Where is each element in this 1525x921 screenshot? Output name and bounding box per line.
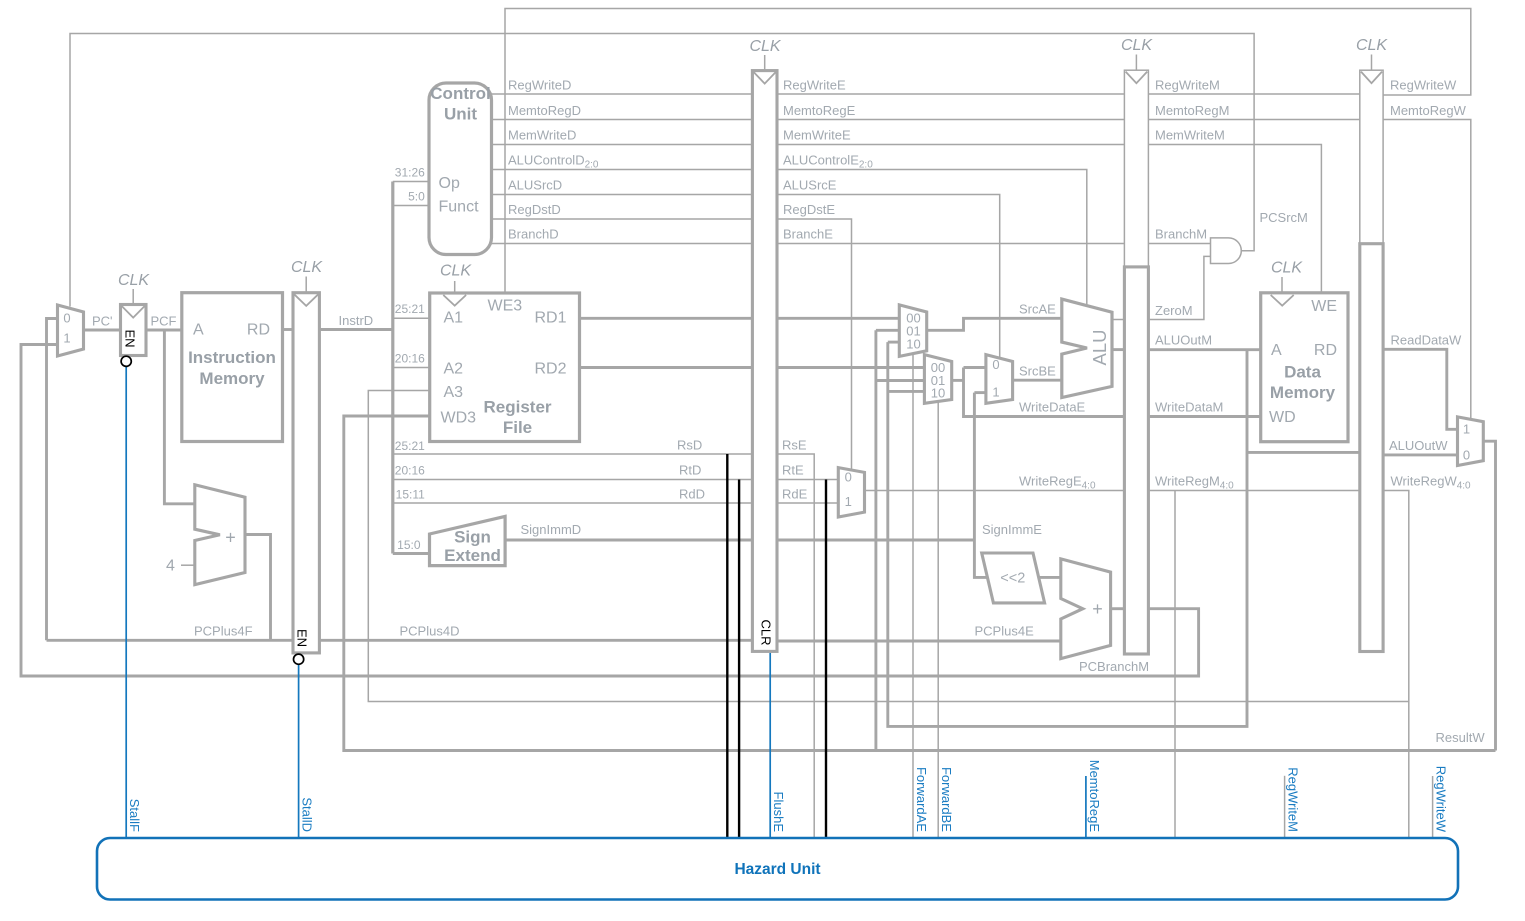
- svg-text:CLK: CLK: [749, 38, 781, 55]
- svg-text:WD3: WD3: [441, 410, 477, 427]
- svg-text:RdD: RdD: [679, 487, 705, 502]
- wire MemtoRegW to result mux select: [1383, 120, 1471, 420]
- svg-text:10: 10: [931, 386, 945, 401]
- register file box: [430, 293, 580, 442]
- wire SrcBE from mux to ALU: [1013, 379, 1062, 382]
- mux SrcB (0/1): [986, 355, 1013, 404]
- wire ALUControlD: [492, 169, 753, 171]
- svg-text:CLK: CLK: [291, 259, 323, 276]
- svg-text:Memory: Memory: [1270, 383, 1336, 402]
- wire SignImmD: [505, 539, 752, 542]
- svg-text:EN: EN: [122, 329, 137, 347]
- svg-text:Memory: Memory: [199, 369, 265, 388]
- svg-text:RD1: RD1: [534, 310, 566, 327]
- wire MemtoRegM: [1148, 119, 1359, 121]
- wire ResultW to forward mux A input 01: [876, 329, 899, 332]
- wire MemtoRegE: [777, 119, 1124, 121]
- clock tick PC: [132, 289, 134, 304]
- clock tick data memory: [1281, 277, 1283, 292]
- svg-text:ForwardBE: ForwardBE: [939, 767, 954, 832]
- svg-text:ALUOutW: ALUOutW: [1389, 438, 1448, 453]
- wire Funct stub: [393, 205, 429, 207]
- wire RegWriteM: [1148, 93, 1359, 95]
- wire RtD: [393, 479, 753, 481]
- instruction memory box: [182, 293, 283, 442]
- register E/M thick datapath part: [1124, 267, 1148, 654]
- wire PCF to instruction memory: [146, 329, 182, 332]
- wire PCPlus4E: [777, 640, 1061, 643]
- svg-text:RegDstE: RegDstE: [783, 202, 835, 217]
- clock triangle M/W: [1361, 72, 1382, 84]
- mux forward A (00/01/10): [899, 305, 926, 357]
- svg-text:5:0: 5:0: [408, 190, 425, 204]
- wire PCF branch down to +4 adder: [164, 330, 195, 504]
- wire BranchM to AND gate: [1148, 243, 1211, 245]
- svg-text:ForwardAE: ForwardAE: [914, 767, 929, 832]
- svg-text:RD: RD: [1314, 342, 1337, 359]
- svg-text:A2: A2: [444, 361, 464, 378]
- svg-text:RD2: RD2: [534, 361, 566, 378]
- adder PC branch: [1061, 559, 1111, 659]
- svg-text:RegWriteM: RegWriteM: [1286, 767, 1301, 832]
- wire WriteRegW down: [1383, 491, 1409, 839]
- svg-text:CLK: CLK: [440, 263, 472, 280]
- wire RtE: [777, 479, 838, 481]
- svg-text:25:21: 25:21: [395, 302, 425, 316]
- wire PCPlus4D: [319, 639, 752, 642]
- svg-text:1: 1: [63, 331, 70, 346]
- wire ALUSrcD: [492, 194, 753, 196]
- svg-text:0: 0: [845, 470, 852, 485]
- svg-text:ALUSrcD: ALUSrcD: [508, 178, 562, 193]
- wire StallD (blue): [298, 664, 300, 838]
- register PC (EN): [121, 305, 147, 356]
- svg-text:Instruction: Instruction: [188, 348, 276, 367]
- svg-text:MemWriteM: MemWriteM: [1155, 128, 1225, 143]
- wire MemWriteD: [492, 144, 753, 146]
- svg-text:WriteDataE: WriteDataE: [1019, 400, 1086, 415]
- wire branch adder out: [1111, 607, 1125, 610]
- svg-text:15:11: 15:11: [396, 488, 425, 502]
- wire BranchD: [492, 243, 753, 245]
- svg-text:Funct: Funct: [439, 199, 480, 216]
- wire RegDstE to WriteReg mux select: [777, 219, 852, 470]
- svg-text:CLK: CLK: [1356, 37, 1388, 54]
- wire PC' from mux to PC register: [84, 329, 121, 332]
- clock triangle register file: [443, 295, 466, 306]
- wire MemtoRegE stub to hazard unit (blue): [1085, 776, 1087, 838]
- svg-text:RegWriteW: RegWriteW: [1390, 78, 1457, 93]
- svg-text:1: 1: [845, 494, 852, 509]
- wire RtE to hazard unit (black): [825, 480, 827, 839]
- wire ALUOut stub from ALU to E/M register: [1112, 348, 1124, 351]
- svg-text:PCF: PCF: [151, 314, 177, 329]
- svg-text:RdE: RdE: [782, 487, 808, 502]
- wire MemWriteM to data memory WE: [1148, 145, 1321, 294]
- wire PCSrcM from AND gate to PC mux select: [70, 34, 1254, 307]
- svg-text:25:21: 25:21: [395, 439, 425, 453]
- svg-text:CLK: CLK: [118, 272, 150, 289]
- wire WriteRegE: [865, 490, 1125, 492]
- svg-text:Sign: Sign: [454, 528, 491, 547]
- clock triangle E/M: [1126, 72, 1148, 84]
- wire ForwardAE select: [912, 354, 914, 839]
- wire PCBranchM long feedback to PC mux input 1: [21, 345, 1199, 677]
- wire ALUOutM forwarding path: [888, 342, 1247, 726]
- wire RD1 to forward mux A input 00: [777, 317, 899, 320]
- wire ALUSrcE to SrcB mux select: [777, 195, 1000, 359]
- wire ResultW long feedback to WD3: [344, 416, 1496, 751]
- wire RegWriteW feedback to WE3: [505, 9, 1471, 294]
- wire ALUOutM to forward mux B input 10: [888, 390, 925, 393]
- svg-text:File: File: [503, 418, 532, 437]
- shifter left 2: [982, 553, 1045, 603]
- svg-text:20:16: 20:16: [395, 464, 425, 478]
- svg-text:RsD: RsD: [677, 438, 702, 453]
- svg-text:WD: WD: [1269, 409, 1296, 426]
- wire ResultW to forward mux B input 01: [876, 379, 925, 382]
- svg-text:<<2: <<2: [1000, 571, 1025, 587]
- svg-text:Extend: Extend: [444, 546, 501, 565]
- enable bubble PC: [121, 356, 131, 366]
- wire instruction memory RD out: [283, 328, 294, 331]
- svg-text:MemWriteD: MemWriteD: [508, 128, 576, 143]
- svg-text:A: A: [1271, 342, 1282, 359]
- svg-text:ALUOutM: ALUOutM: [1155, 333, 1212, 348]
- clock tick register file: [454, 281, 456, 293]
- clock triangle F/D: [294, 294, 318, 306]
- wire ResultW forwarding vertical: [874, 330, 877, 750]
- wire SignImmE branch to SrcB mux input 1 and shifter: [974, 393, 987, 578]
- svg-text:BranchM: BranchM: [1155, 227, 1207, 242]
- svg-text:RsE: RsE: [782, 438, 807, 453]
- wire ALUControlE to ALU: [777, 170, 1087, 306]
- wire A1 slice stub: [393, 317, 430, 319]
- svg-text:15:0: 15:0: [397, 538, 421, 552]
- svg-text:MemtoRegE: MemtoRegE: [783, 103, 856, 118]
- svg-text:BranchE: BranchE: [783, 227, 833, 242]
- svg-text:PCSrcM: PCSrcM: [1260, 210, 1308, 225]
- svg-text:MemtoRegM: MemtoRegM: [1155, 103, 1229, 118]
- svg-text:A1: A1: [444, 310, 464, 327]
- svg-text:+: +: [1092, 599, 1103, 619]
- svg-text:SrcAE: SrcAE: [1019, 302, 1056, 317]
- wire MemtoRegD: [492, 119, 753, 121]
- svg-text:MemtoRegW: MemtoRegW: [1390, 103, 1467, 118]
- wire WriteDataE: [964, 368, 1125, 417]
- wire RegWriteM stub into hazard unit: [1284, 776, 1286, 839]
- svg-text:Op: Op: [439, 175, 460, 192]
- mux result (1/0): [1458, 417, 1484, 466]
- svg-text:0: 0: [992, 357, 999, 372]
- wire RdE: [777, 502, 838, 504]
- clock triangle PC: [122, 306, 145, 318]
- svg-text:MemWriteE: MemWriteE: [783, 128, 851, 143]
- register M/W thin control part: [1360, 70, 1383, 244]
- mux WriteRegE (RtE/RdE 0/1): [838, 468, 864, 517]
- svg-text:EN: EN: [295, 629, 310, 647]
- svg-text:PCPlus4E: PCPlus4E: [975, 623, 1035, 638]
- svg-text:SignImmE: SignImmE: [982, 522, 1042, 537]
- svg-text:ReadDataW: ReadDataW: [1391, 333, 1463, 348]
- wire RsD to hazard unit (black): [726, 454, 728, 838]
- sign extend box: [430, 516, 506, 565]
- wire ReadDataW to result mux input 1: [1383, 349, 1457, 429]
- svg-text:SignImmD: SignImmD: [521, 522, 582, 537]
- wire instruction bus vertical: [391, 182, 394, 554]
- svg-text:+: +: [225, 528, 236, 548]
- svg-text:RegWriteE: RegWriteE: [783, 78, 846, 93]
- wire WriteRegM: [1148, 490, 1359, 492]
- svg-text:Unit: Unit: [444, 105, 477, 124]
- wire ALUOutM tee to M/W register: [1247, 451, 1360, 454]
- svg-text:InstrD: InstrD: [339, 313, 374, 328]
- svg-text:1: 1: [992, 385, 999, 400]
- clock tick E/M: [1135, 55, 1137, 70]
- wire StallF (blue): [125, 367, 127, 839]
- svg-text:SrcBE: SrcBE: [1019, 364, 1056, 379]
- svg-text:PCPlus4F: PCPlus4F: [194, 623, 253, 638]
- svg-text:0: 0: [1463, 448, 1470, 463]
- wire A2 slice stub: [393, 367, 430, 369]
- svg-text:WriteDataM: WriteDataM: [1155, 400, 1223, 415]
- wire ALUOutM to forward mux A input 10: [888, 341, 900, 344]
- wire InstrD: [319, 328, 392, 331]
- svg-text:20:16: 20:16: [395, 352, 425, 366]
- svg-text:MemtoRegE: MemtoRegE: [1087, 760, 1102, 833]
- svg-text:ALU: ALU: [1089, 330, 1110, 366]
- wire WriteRegW feedback to A3: [368, 391, 1409, 702]
- wire ALUOutW to result mux input 0: [1383, 453, 1457, 456]
- wire FlushE (blue): [769, 653, 771, 839]
- svg-text:ZeroM: ZeroM: [1155, 303, 1193, 318]
- wire RtD to hazard unit (black): [738, 480, 740, 839]
- wire RD2: [580, 366, 753, 369]
- wire to SrcB mux input 0: [964, 366, 986, 369]
- svg-text:FlushE: FlushE: [771, 792, 786, 833]
- clock tick D/E: [764, 55, 766, 70]
- register D/E (CLR): [752, 71, 777, 652]
- wire RdD: [393, 502, 753, 504]
- wire ZeroM stub from ALU: [1112, 319, 1124, 321]
- svg-text:WE3: WE3: [488, 298, 523, 315]
- wire ForwardBE select: [937, 402, 939, 839]
- ALU: [1062, 299, 1112, 397]
- svg-text:31:26: 31:26: [395, 166, 425, 180]
- svg-text:CLK: CLK: [1271, 260, 1303, 277]
- clock tick F/D: [305, 277, 307, 293]
- svg-text:ResultW: ResultW: [1436, 730, 1486, 745]
- wire SignImmE: [777, 539, 974, 542]
- svg-text:10: 10: [906, 336, 920, 351]
- wire stub to SrcB mux input 1: [974, 391, 986, 394]
- register E/M thin control part: [1124, 70, 1148, 267]
- clock triangle data memory: [1271, 295, 1294, 306]
- enable bubble F/D: [294, 654, 304, 664]
- wire MemWriteE: [777, 144, 1124, 146]
- AND gate branch: [1211, 238, 1242, 264]
- svg-text:MemtoRegD: MemtoRegD: [508, 103, 581, 118]
- wire RD2 to forward mux B input 00: [777, 366, 924, 369]
- wire constant 4 stub: [181, 564, 196, 566]
- hazard unit box: [97, 838, 1458, 900]
- wire 15:0 stub to sign extend: [393, 552, 430, 555]
- wire RegWriteD: [492, 93, 753, 95]
- svg-text:RtD: RtD: [679, 463, 701, 478]
- svg-text:PC': PC': [92, 314, 113, 329]
- svg-text:RegDstD: RegDstD: [508, 202, 561, 217]
- wire RegWriteE: [777, 93, 1124, 95]
- wire ResultW from result mux: [1483, 441, 1495, 750]
- svg-text:RegWriteM: RegWriteM: [1155, 78, 1220, 93]
- wire SrcAE from forward mux A to ALU: [927, 318, 1062, 330]
- wire RegWriteW stub into hazard unit: [1432, 776, 1434, 838]
- register F/D: [293, 293, 319, 653]
- mux PC source (0/1): [58, 305, 84, 356]
- wire RegDstD: [492, 218, 753, 220]
- wire WriteDataM: [1148, 415, 1260, 418]
- wire PCPlus4F row: [47, 639, 294, 642]
- svg-text:BranchD: BranchD: [508, 227, 559, 242]
- svg-text:0: 0: [63, 311, 70, 326]
- mux forward B (00/01/10): [924, 355, 951, 404]
- svg-text:PCBranchM: PCBranchM: [1079, 659, 1149, 674]
- svg-text:RegWriteD: RegWriteD: [508, 78, 571, 93]
- clock tick M/W: [1371, 55, 1373, 70]
- svg-text:4: 4: [166, 558, 175, 575]
- wire ALUOutM to data memory A: [1148, 348, 1260, 351]
- wire BranchE: [777, 243, 1124, 245]
- svg-text:CLR: CLR: [758, 619, 773, 645]
- control unit box: [429, 83, 492, 255]
- svg-text:Hazard Unit: Hazard Unit: [734, 861, 820, 878]
- svg-text:Data: Data: [1284, 363, 1321, 382]
- wire shifter out to branch adder: [1038, 576, 1061, 579]
- adder PC plus 4: [195, 485, 245, 585]
- wire RD1: [580, 317, 753, 320]
- svg-text:PCPlus4D: PCPlus4D: [400, 623, 460, 638]
- svg-text:A: A: [193, 322, 204, 339]
- svg-text:1: 1: [1463, 422, 1470, 437]
- svg-text:StallD: StallD: [300, 797, 315, 832]
- wire forward mux B out: [952, 379, 964, 382]
- wire Op stub: [393, 181, 429, 183]
- wire WriteRegM to hazard unit: [1174, 491, 1176, 839]
- svg-text:RtE: RtE: [782, 463, 804, 478]
- clock triangle D/E: [754, 72, 776, 84]
- svg-text:RegWriteW: RegWriteW: [1434, 766, 1449, 833]
- svg-text:CLK: CLK: [1121, 37, 1153, 54]
- svg-text:StallF: StallF: [127, 799, 142, 832]
- svg-text:ALUSrcE: ALUSrcE: [783, 178, 837, 193]
- svg-text:WE: WE: [1311, 298, 1337, 315]
- svg-text:Register: Register: [483, 398, 551, 417]
- wire ZeroM to AND gate: [1148, 256, 1211, 319]
- register M/W thick datapath part: [1360, 244, 1383, 652]
- wire PCPlus4F from adder out: [245, 535, 271, 641]
- svg-text:A3: A3: [444, 384, 464, 401]
- svg-text:Control: Control: [430, 84, 490, 103]
- wire PCPlus4F up to PC mux input 0: [47, 319, 58, 641]
- data memory box: [1261, 293, 1348, 442]
- wire RsE to hazard unit: [777, 454, 814, 838]
- svg-text:RD: RD: [247, 322, 270, 339]
- wire RsD: [393, 453, 753, 455]
